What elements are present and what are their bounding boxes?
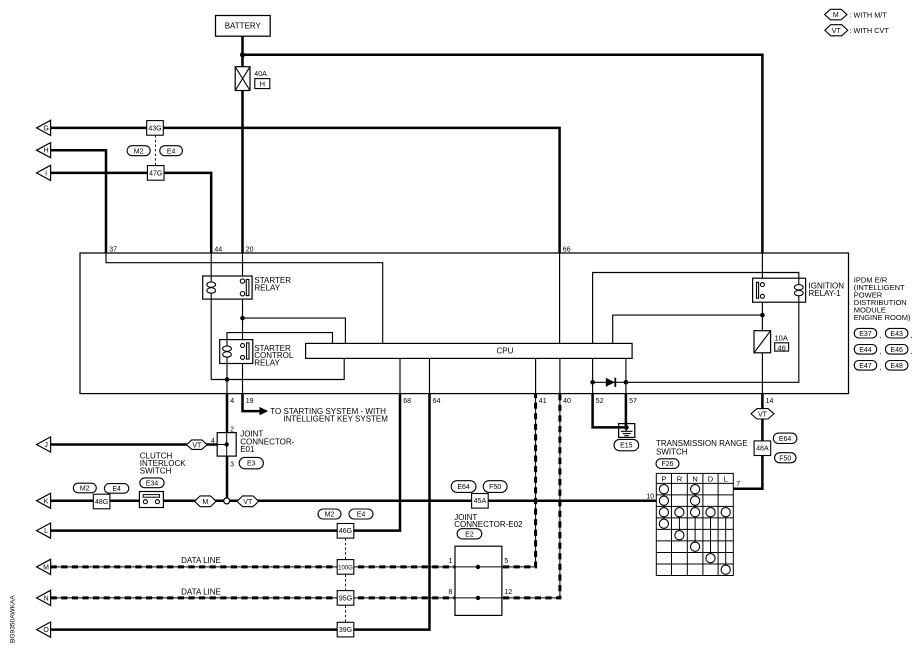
oval F50 above 45A — [483, 481, 507, 493]
svg-text:J: J — [44, 442, 48, 449]
terminal arrow I — [37, 165, 51, 180]
wire data line N from E02 to pin 40 riser — [502, 394, 560, 598]
wire pin 20 to starter relay contact — [242, 253, 244, 281]
oval E3 — [239, 457, 263, 468]
svg-text:E34: E34 — [146, 480, 159, 487]
svg-text:D: D — [708, 474, 714, 483]
svg-text:4: 4 — [230, 398, 234, 405]
wire ignition relay contact to fuse — [761, 298, 763, 331]
connector ovals E37 E43 E44 E46 E47 E48 — [854, 328, 877, 338]
wire relay junction to CPU — [243, 318, 346, 343]
oval E34 — [140, 478, 164, 488]
hexagon VT on J line — [186, 440, 207, 450]
svg-text:: WITH M/T: : WITH M/T — [850, 10, 888, 19]
ground box E15 — [619, 424, 635, 438]
svg-text:K: K — [44, 498, 49, 505]
svg-text:E43: E43 — [890, 331, 903, 338]
arrowhead to starting system — [260, 407, 269, 415]
svg-text:4: 4 — [211, 438, 215, 445]
svg-text:47G: 47G — [149, 170, 162, 177]
oval M2 above 46G — [318, 509, 341, 519]
oval E2 — [457, 529, 482, 539]
wire fuse to pin 14 — [761, 353, 763, 394]
svg-text:CONNECTOR-E02: CONNECTOR-E02 — [454, 520, 523, 529]
svg-text:RELAY: RELAY — [254, 358, 280, 367]
svg-text:14: 14 — [766, 398, 774, 405]
svg-text:100G: 100G — [338, 565, 353, 571]
svg-text:INTELLIGENT KEY SYSTEM: INTELLIGENT KEY SYSTEM — [283, 415, 388, 424]
svg-text:F26: F26 — [661, 461, 673, 468]
svg-text:M: M — [43, 564, 49, 571]
terminal arrow L — [37, 523, 51, 538]
terminal arrow M — [37, 559, 51, 574]
svg-text:37: 37 — [109, 246, 117, 253]
wire H to pin 37 — [51, 150, 106, 253]
svg-text:F50: F50 — [489, 484, 501, 491]
wire G to pin 66 — [51, 128, 560, 253]
hexagon symbol M legend — [825, 9, 847, 19]
wire J line — [51, 443, 218, 446]
connector 95G — [337, 591, 354, 606]
wire O line and riser to pin 64 — [51, 394, 430, 630]
svg-text:95G: 95G — [339, 595, 352, 602]
svg-text:DATA LINE: DATA LINE — [181, 587, 221, 596]
hexagon VT on K line — [237, 496, 259, 507]
svg-text:N: N — [692, 474, 697, 483]
svg-text:66: 66 — [563, 246, 571, 253]
wire starter control relay contact to pin 19 — [242, 359, 244, 393]
table contact circles — [659, 485, 668, 494]
joint connector E02 — [455, 546, 502, 615]
svg-text:45A: 45A — [474, 498, 487, 505]
wire bus to CPU bottom — [211, 358, 344, 379]
svg-text:68: 68 — [403, 398, 411, 405]
svg-text:E4: E4 — [112, 486, 121, 493]
svg-text:O: O — [43, 627, 49, 634]
wire starter relay coil to bus — [210, 299, 212, 379]
hexagon symbol VT legend — [825, 25, 848, 36]
wire pin 14 to transmission range switch — [761, 394, 764, 409]
dashed connector link 46G-100G-95G-39G — [345, 538, 347, 559]
ground symbol — [624, 425, 629, 430]
terminal arrow K — [37, 493, 51, 508]
svg-text:CPU: CPU — [496, 346, 513, 355]
wire pin 66 to CPU — [559, 253, 561, 343]
wire ignition relay coil to diode line — [626, 302, 799, 382]
svg-text:I: I — [45, 170, 47, 177]
svg-text:10A: 10A — [775, 333, 788, 342]
svg-text:52: 52 — [596, 398, 604, 405]
svg-text:E2: E2 — [465, 531, 474, 538]
svg-text:48A: 48A — [756, 446, 769, 453]
svg-text:20: 20 — [246, 246, 254, 253]
svg-text:H: H — [260, 80, 265, 89]
svg-text:7: 7 — [736, 481, 740, 488]
table contact connection lines — [663, 489, 665, 524]
svg-text:46: 46 — [777, 343, 785, 352]
connector 46G — [337, 524, 354, 539]
wire CPU pin 57 — [625, 358, 627, 393]
svg-text:G: G — [43, 125, 48, 132]
svg-text:2: 2 — [230, 426, 234, 433]
svg-text:ENGINE ROOM): ENGINE ROOM) — [854, 313, 911, 322]
wire pin 19 to starting system — [243, 394, 260, 412]
wire pin 44 to starter relay coil — [210, 253, 212, 276]
wire pin 57 to ground — [625, 394, 628, 428]
node diode cathode — [624, 380, 629, 385]
svg-text:R: R — [677, 474, 683, 483]
starter control relay U2 — [220, 340, 253, 364]
svg-text:N: N — [44, 595, 49, 602]
node relay junction — [240, 316, 245, 321]
node coil-pin4 junction — [225, 377, 230, 382]
svg-text:E47: E47 — [859, 363, 872, 370]
terminal arrow G — [37, 120, 51, 135]
wire diode link — [593, 381, 626, 383]
svg-text:: WITH CVT: : WITH CVT — [850, 26, 890, 35]
connector 100G — [337, 560, 354, 575]
svg-text:E48: E48 — [890, 363, 903, 370]
joint connector E01 — [217, 433, 236, 457]
wire fusible link to pin 20 — [241, 91, 244, 254]
svg-text:E46: E46 — [890, 347, 903, 354]
svg-text:M: M — [833, 12, 839, 19]
svg-text:8: 8 — [448, 589, 452, 596]
svg-text:BG9350AWKAA: BG9350AWKAA — [10, 595, 17, 643]
svg-text:BATTERY: BATTERY — [225, 22, 262, 31]
svg-text:19: 19 — [246, 398, 254, 405]
oval E4 above 46G — [349, 509, 373, 519]
svg-text:40: 40 — [563, 398, 571, 405]
terminal arrow N — [37, 590, 51, 605]
svg-text:,: , — [879, 349, 881, 356]
svg-text:E44: E44 — [859, 347, 872, 354]
dashed connector link 43G-47G — [154, 135, 156, 165]
svg-text:F50: F50 — [779, 455, 791, 462]
svg-text:E3: E3 — [247, 461, 256, 468]
svg-text:41: 41 — [539, 398, 547, 405]
svg-text:10: 10 — [646, 494, 654, 501]
connector 39G — [337, 622, 354, 637]
svg-text:M2: M2 — [134, 148, 144, 155]
svg-text:VT: VT — [243, 499, 253, 506]
wire battery drop to fusible link — [241, 36, 244, 66]
connector 48G — [93, 494, 110, 509]
node diode anode — [590, 380, 595, 385]
svg-text:M: M — [202, 499, 208, 506]
svg-text:M2: M2 — [80, 486, 90, 493]
wire junction to CPU — [613, 315, 763, 343]
svg-text:DATA LINE: DATA LINE — [181, 556, 221, 565]
svg-text:SWITCH: SWITCH — [140, 467, 172, 476]
wire pin 52 to ground — [593, 394, 627, 428]
svg-text:5: 5 — [504, 558, 508, 565]
svg-text:H: H — [44, 148, 49, 155]
oval E15 — [614, 439, 639, 450]
CPU U3 — [306, 343, 632, 358]
wire battery feed down to ignition relay — [761, 253, 763, 284]
terminal arrow O — [37, 622, 51, 637]
wire data line M (100G) — [51, 566, 455, 568]
svg-text:VT: VT — [832, 28, 842, 35]
wire pin 37 to CPU — [106, 253, 383, 343]
svg-text:E01: E01 — [240, 445, 255, 454]
transmission range switch contact table — [656, 473, 733, 575]
IPDM E/R module box — [80, 253, 849, 394]
wire starter control relay coil bottom to pin 4 — [226, 364, 228, 394]
connector 45A — [472, 494, 489, 509]
wire data line M from E02 to pin 41 riser — [502, 394, 536, 567]
wire pin 4 to joint connector E01 — [226, 394, 229, 433]
wire starter control relay coil to CPU — [227, 333, 333, 344]
svg-text:RELAY: RELAY — [254, 284, 280, 293]
svg-text:3: 3 — [230, 461, 234, 468]
svg-text:48G: 48G — [95, 499, 108, 506]
svg-text:L: L — [44, 528, 48, 535]
oval F26 — [656, 459, 679, 469]
wire I to pin 44 — [51, 173, 212, 253]
terminal arrow H — [37, 143, 51, 158]
ignition relay-1 U4 — [753, 278, 806, 302]
connector 43G — [147, 121, 164, 136]
svg-text:M2: M2 — [325, 512, 335, 519]
wire CPU to ignition relay coil — [593, 273, 799, 344]
wire CPU pin 52 — [592, 358, 594, 393]
svg-text:RELAY-1: RELAY-1 — [809, 289, 842, 298]
wire E01 pin 3 to K-line junction — [226, 456, 229, 498]
svg-text:P: P — [661, 474, 666, 483]
battery — [216, 16, 271, 37]
svg-text:57: 57 — [629, 398, 637, 405]
svg-text:E4: E4 — [167, 148, 176, 155]
oval E4 near 48G — [104, 484, 128, 494]
hexagon M on K line — [195, 496, 217, 507]
oval F50 right — [775, 453, 796, 463]
svg-text:,: , — [911, 332, 913, 339]
svg-text:43G: 43G — [148, 125, 161, 132]
oval M2 near 48G — [73, 483, 96, 493]
starter relay U1 — [203, 276, 252, 299]
diode D1 — [606, 378, 615, 387]
wire L line and riser to pin 68 — [51, 394, 400, 531]
svg-text:12: 12 — [504, 589, 512, 596]
svg-text:,: , — [879, 365, 881, 372]
wire battery feed horizontal — [243, 55, 763, 253]
svg-text:64: 64 — [433, 398, 441, 405]
node K junction circle — [224, 498, 230, 504]
svg-text:E15: E15 — [620, 443, 633, 450]
oval E64 above 45A — [451, 481, 476, 493]
svg-text:,: , — [879, 332, 881, 339]
svg-text:VT: VT — [192, 442, 202, 449]
svg-text:SWITCH: SWITCH — [656, 447, 688, 456]
svg-text:E64: E64 — [779, 436, 792, 443]
svg-text:L: L — [724, 474, 728, 483]
oval E4 top — [160, 146, 183, 156]
svg-text:40A: 40A — [254, 71, 267, 78]
connector 47G — [147, 166, 164, 181]
svg-text:46G: 46G — [339, 528, 352, 535]
clutch interlock switch S1 — [139, 492, 163, 508]
oval E64 right — [773, 433, 797, 443]
connector 48A — [754, 441, 771, 456]
fuse 10A 46 — [754, 331, 771, 353]
svg-text:39G: 39G — [339, 627, 352, 634]
wire K line — [51, 500, 657, 503]
svg-text:44: 44 — [214, 246, 222, 253]
svg-text:E4: E4 — [357, 512, 366, 519]
terminal arrow J — [37, 437, 51, 452]
node battery junction — [240, 52, 245, 57]
svg-text:,: , — [911, 349, 913, 356]
wire data line N (95G) — [51, 597, 455, 599]
svg-text:1: 1 — [448, 558, 452, 565]
oval M2 top — [127, 146, 150, 156]
node ignition output junction — [760, 313, 765, 318]
svg-text:VT: VT — [758, 411, 768, 418]
hexagon VT at pin 14 — [751, 409, 774, 419]
svg-text:E64: E64 — [457, 484, 470, 491]
svg-text:E37: E37 — [859, 331, 872, 338]
wire starter relay contact to starter control relay contact — [242, 296, 244, 346]
fusible link 40A H — [235, 67, 250, 91]
